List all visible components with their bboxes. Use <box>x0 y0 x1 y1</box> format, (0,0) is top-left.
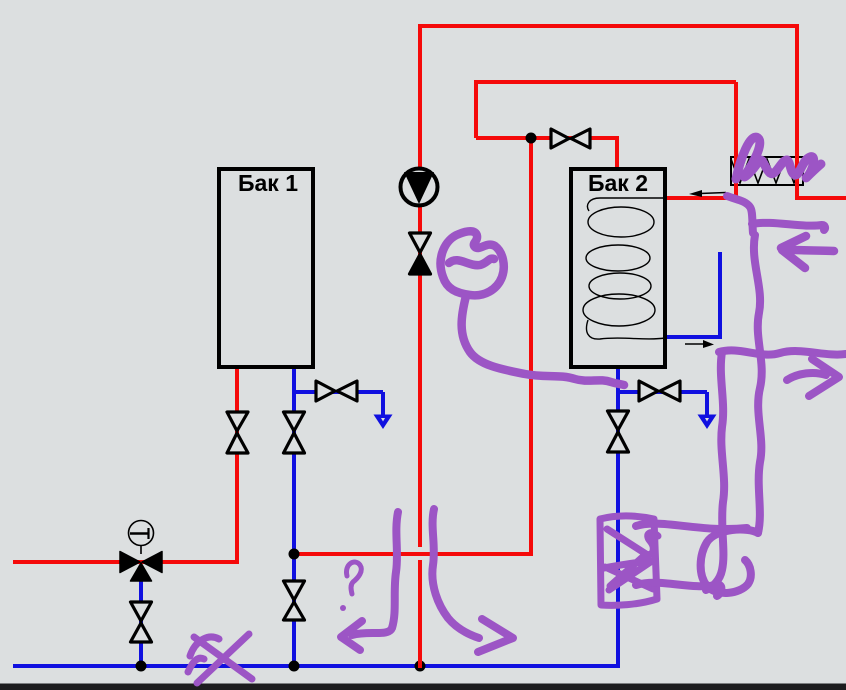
wire: blue tank1 drop <box>292 369 296 666</box>
annotation: balloon tail <box>462 296 624 385</box>
wire: red right vertical <box>795 24 799 198</box>
wire: blue tank1 branch drop <box>381 392 385 424</box>
wire: blue mixing valve drain <box>139 578 143 666</box>
annotation: second long vertical <box>706 352 724 590</box>
annotation: left arrow right side <box>781 236 834 268</box>
valve V3 tank1 red outlet <box>227 412 248 453</box>
bottom black bar <box>0 684 846 690</box>
annotation: down-left hook arrow <box>341 512 398 650</box>
wire: blue tank1 branch horizontal <box>294 390 383 394</box>
wire: blue tank2 drop <box>616 368 620 668</box>
wire: red horizontal y562 to left edge <box>13 560 239 564</box>
junction dot blue/red y554 <box>289 549 300 560</box>
wire: red riser from pump to top (upper) <box>418 24 422 547</box>
svg-text:Бак 2: Бак 2 <box>588 170 648 196</box>
wire: red riser lower segment (gap at crossing) <box>418 560 422 667</box>
wire: blue bottom main <box>13 664 618 668</box>
junction dot bottom x420 <box>415 661 426 672</box>
wire: red tank2 coil inlet horizontal <box>665 196 738 200</box>
coil inside tank 2 <box>583 198 665 339</box>
flow arrow A1 (left, at tank2 coil inlet) <box>689 190 726 197</box>
valve V1 below pump (half filled) <box>410 233 431 274</box>
wire: blue vertical x720 <box>718 252 722 339</box>
drain arrow D2 <box>698 415 717 430</box>
annotation purple layer <box>188 137 846 683</box>
wire: red tank1 outlet drop <box>235 369 239 562</box>
annotation: wavy horizontal right <box>719 350 846 354</box>
valve V4 tank1 blue outlet <box>284 412 305 453</box>
valve V9 mixing drain x141 <box>131 602 152 642</box>
wire: blue tank2 coil outlet <box>665 335 720 339</box>
annotation: wavy connector top of box <box>636 524 747 529</box>
valve V7 tank2 blue drop <box>608 411 629 452</box>
annotation: balloon <box>441 231 504 295</box>
wire: red horizontal to tank2 valve run <box>476 136 617 140</box>
annotation: F-shape and long right vertical <box>727 196 753 233</box>
junction dot at red valve run <box>526 133 537 144</box>
junction dot bottom x294 <box>289 661 300 672</box>
wire: red vertical x531 <box>529 138 533 554</box>
pump P1 <box>401 169 438 206</box>
heat exchanger HX1 (hatched radiator box top right) <box>731 157 803 185</box>
junction dot bottom x141 <box>136 661 147 672</box>
valve V5 tank1 branch horizontal <box>316 381 357 401</box>
three-way mixing valve M1 with actuator <box>120 521 162 582</box>
wire: blue tank2 branch horizontal <box>618 390 707 394</box>
tank Бак 1 <box>219 169 313 367</box>
annotation: scribble over heat exchanger <box>736 137 787 179</box>
tank Бак 2 <box>571 169 665 367</box>
wire: red over dot <box>418 660 422 668</box>
valve V6 tank2 branch horizontal <box>639 381 680 401</box>
annotation: right arrow bottom right <box>787 359 839 396</box>
wire: red stub to right edge <box>795 196 846 200</box>
wire: blue tank2 branch drop <box>705 392 709 424</box>
wire: red second horizontal <box>476 80 736 84</box>
wire: red top horizontal <box>418 24 797 28</box>
annotation: wavy connector bottom of box <box>636 583 721 596</box>
flow arrow A2 (right, at tank2 coil outlet) <box>685 340 714 348</box>
annotation: question mark <box>346 562 361 594</box>
annotation: crossed box <box>600 516 658 605</box>
annotation: scribble over bottom-left pipe <box>188 634 252 683</box>
wire: red drop into tank2 top <box>615 136 619 168</box>
svg-text:Бак 1: Бак 1 <box>238 170 298 196</box>
valve V8 blue x294 lower <box>284 581 305 620</box>
wire: red horizontal y554 <box>294 552 533 556</box>
annotation: loop bottom right <box>701 530 758 593</box>
wire: red vertical x736 into hx <box>734 82 738 198</box>
annotation: down-right hook arrow <box>432 509 513 652</box>
wire: red drop at x476 <box>474 80 478 138</box>
valve V2 top hollow (on red run y138) <box>551 129 590 148</box>
drain arrow D1 <box>374 415 393 430</box>
